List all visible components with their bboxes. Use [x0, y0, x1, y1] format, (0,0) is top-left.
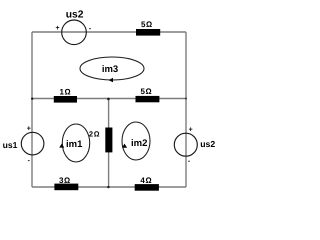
svg-text:+: +	[189, 126, 193, 133]
svg-text:4Ω: 4Ω	[140, 176, 152, 185]
svg-text:im3: im3	[102, 64, 118, 75]
svg-text:im2: im2	[131, 138, 147, 149]
node junction bottom (bottom wire / middle branch)	[107, 186, 109, 188]
svg-text:1Ω: 1Ω	[60, 87, 72, 96]
mesh current im2	[122, 122, 150, 160]
resistor 2ohm	[89, 128, 112, 153]
resistor 5ohm (middle)	[136, 87, 160, 102]
svg-text:us1: us1	[3, 140, 18, 150]
svg-text:2Ω: 2Ω	[89, 129, 100, 138]
node junction left (left wire / middle wire)	[31, 98, 33, 100]
svg-text:5Ω: 5Ω	[141, 20, 153, 29]
resistor 1ohm	[54, 87, 77, 102]
wire top (node between us2 top and 5ohm top)	[32, 31, 186, 33]
voltage source us2 (top)	[56, 10, 92, 45]
svg-text:us2: us2	[66, 10, 84, 21]
resistor 5ohm (top)	[136, 20, 160, 36]
node junction center top (middle wire / middle branch)	[107, 98, 110, 101]
mesh current im3	[80, 57, 144, 82]
node junction right (right wire / middle wire)	[185, 98, 187, 100]
svg-text:im1: im1	[66, 139, 83, 150]
resistor 3ohm	[54, 176, 78, 190]
wire bottom	[32, 186, 186, 188]
svg-text:+: +	[56, 25, 60, 32]
voltage source us1	[3, 126, 44, 165]
mesh current im1	[59, 124, 89, 162]
wire right	[185, 32, 187, 187]
voltage source us2 (right)	[174, 126, 215, 164]
wire middle vertical	[108, 99, 110, 188]
svg-text:3Ω: 3Ω	[59, 176, 71, 185]
svg-text:us2: us2	[200, 139, 215, 149]
svg-text:5Ω: 5Ω	[141, 87, 153, 96]
resistor 4ohm	[135, 176, 159, 191]
wire left	[31, 32, 33, 187]
svg-text:+: +	[27, 126, 31, 133]
wire middle horizontal	[32, 98, 186, 100]
